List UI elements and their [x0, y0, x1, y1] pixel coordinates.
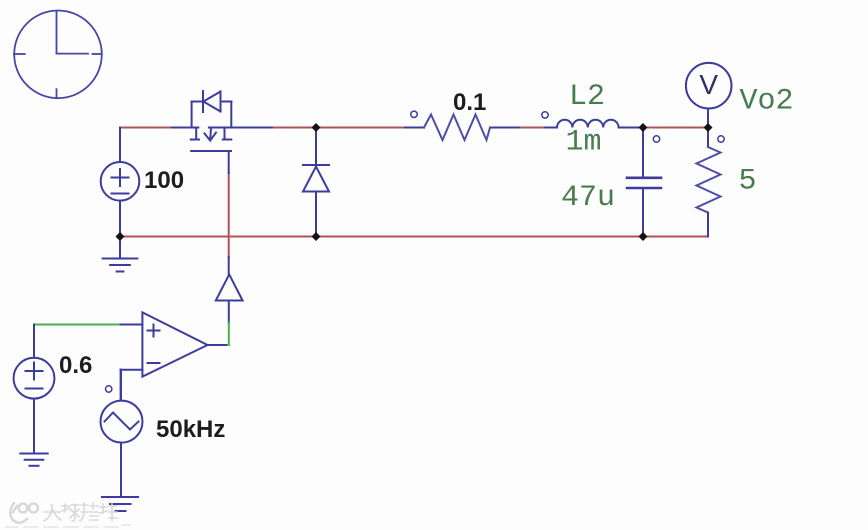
wire gate drive red vertical: [228, 173, 230, 257]
wire top rail red segments: [120, 127, 708, 129]
wire blue stubs top rail: [172, 127, 643, 129]
node marker circle load top: [718, 136, 724, 142]
voltmeter V probe: [686, 63, 732, 128]
ground under sine source: [102, 497, 138, 511]
voltage source V1 100: [101, 128, 140, 237]
sine source 50kHz carrier: [101, 370, 143, 497]
clock icon: [14, 11, 102, 99]
resistor R5 load: [697, 128, 721, 237]
voltage source V2 0.6: [14, 325, 55, 454]
svg-text:Vo2: Vo2: [740, 84, 794, 118]
svg-text:V: V: [699, 69, 718, 100]
buffer gate driver triangle: [216, 257, 243, 323]
svg-text:100: 100: [144, 167, 184, 194]
node dot junction top cap: [639, 123, 648, 132]
watermark bottom strip: [6, 525, 130, 527]
watermark logo: [10, 503, 38, 523]
wire green output net: [34, 323, 229, 345]
node dot junction bottom cap: [639, 232, 648, 241]
diode D1 freewheeling: [303, 128, 329, 237]
inductor L2: [557, 120, 619, 128]
svg-text:50kHz: 50kHz: [156, 416, 225, 443]
node marker circle sine top: [106, 386, 112, 392]
wire bottom rail: [120, 236, 708, 238]
node dot junction bottom diode: [312, 232, 321, 241]
node marker circle inductor left: [542, 112, 548, 118]
watermark text: [44, 503, 117, 521]
node dot junction bottom source: [116, 232, 125, 241]
svg-text:0.6: 0.6: [59, 352, 92, 379]
svg-text:L2: L2: [569, 80, 605, 114]
svg-text:47u: 47u: [561, 181, 615, 215]
svg-text:0.1: 0.1: [453, 89, 486, 116]
node dot junction top load: [704, 123, 713, 132]
node dot junction top diode: [312, 123, 321, 132]
op-amp comparator U1: [121, 312, 226, 400]
svg-text:5: 5: [739, 165, 757, 199]
ground under V1: [103, 237, 138, 272]
capacitor C1 47u: [627, 128, 661, 237]
node marker circle cap top: [653, 136, 659, 142]
ground under V2: [20, 454, 47, 466]
svg-text:1m: 1m: [566, 126, 602, 160]
node marker circle resistor left: [411, 111, 417, 117]
resistor R 0.1: [424, 115, 490, 141]
transistor Q1 MOSFET with body diode: [191, 91, 232, 173]
